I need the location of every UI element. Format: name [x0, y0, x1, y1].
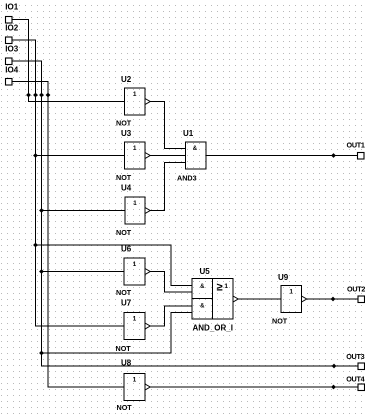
- svg-text:U8: U8: [121, 358, 132, 367]
- svg-text:OUT3: OUT3: [346, 352, 364, 361]
- svg-text:U3: U3: [121, 129, 132, 138]
- svg-text:1: 1: [133, 377, 137, 384]
- svg-text:NOT: NOT: [116, 173, 132, 182]
- svg-text:1: 1: [289, 289, 293, 296]
- svg-text:1: 1: [133, 145, 137, 152]
- svg-text:OUT2: OUT2: [347, 285, 365, 294]
- svg-text:OUT4: OUT4: [346, 375, 364, 384]
- svg-text:1: 1: [133, 200, 137, 207]
- svg-text:&: &: [200, 304, 205, 310]
- svg-text:≥: ≥: [217, 282, 223, 294]
- svg-text:U9: U9: [278, 273, 289, 282]
- svg-text:U2: U2: [121, 75, 132, 84]
- svg-text:U4: U4: [121, 184, 132, 193]
- svg-text:NOT: NOT: [116, 288, 132, 297]
- svg-text:NOT: NOT: [117, 403, 133, 412]
- svg-text:1: 1: [133, 261, 137, 268]
- svg-text:1: 1: [133, 316, 137, 323]
- svg-text:IO4: IO4: [5, 66, 18, 75]
- svg-text:1: 1: [133, 91, 137, 98]
- svg-text:IO1: IO1: [5, 3, 18, 12]
- svg-text:IO2: IO2: [5, 24, 18, 33]
- svg-text:U6: U6: [121, 245, 132, 254]
- svg-text:&: &: [200, 284, 205, 290]
- svg-text:OUT1: OUT1: [347, 141, 365, 150]
- svg-text:U5: U5: [200, 267, 211, 276]
- svg-text:NOT: NOT: [116, 344, 132, 353]
- svg-text:&: &: [193, 146, 198, 152]
- svg-text:NOT: NOT: [272, 317, 288, 326]
- svg-text:NOT: NOT: [116, 119, 132, 128]
- svg-text:AND_OR_I: AND_OR_I: [193, 324, 233, 333]
- svg-text:IO3: IO3: [5, 45, 18, 54]
- svg-text:U1: U1: [183, 129, 194, 138]
- svg-text:1: 1: [224, 283, 228, 290]
- svg-text:AND3: AND3: [177, 174, 197, 183]
- svg-text:NOT: NOT: [116, 228, 132, 237]
- svg-text:U7: U7: [121, 299, 132, 308]
